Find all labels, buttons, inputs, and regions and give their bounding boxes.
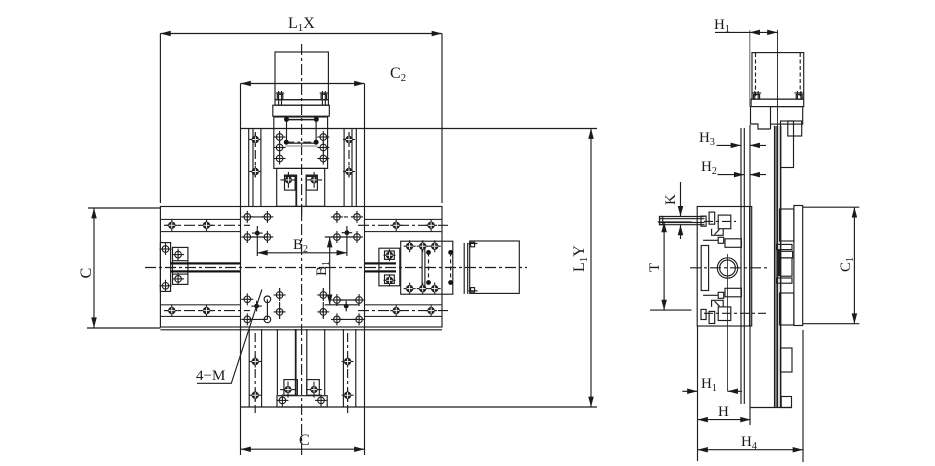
centerline horizontal (X axis) [145,267,527,269]
body bottom blocks [701,300,731,323]
lead screw bore [717,254,737,391]
central square BR screws [331,294,365,325]
dimension H1 top [715,30,778,107]
central square BL screws [241,293,270,325]
dimension L1X [160,34,442,204]
TR dot [342,226,353,256]
Y table strip [794,206,803,326]
coupling screws [404,240,441,294]
BR extra screws [317,288,329,319]
Y carriage top mount [781,121,802,168]
right bracket [379,248,400,286]
left clamp block [160,243,188,292]
coupling dot centerlines [429,252,451,282]
svg-text:T: T [647,263,663,272]
central square TR screws [325,211,363,243]
top arm screws [249,134,355,178]
dimension H1 bottom [682,390,742,392]
dimension L1Y [590,129,592,408]
bottom flange [751,397,792,408]
table surface lines [741,128,744,404]
dimension C2 [241,83,365,85]
Y nut cluster [776,244,792,283]
dimension B1 [329,237,331,305]
dimension C left [93,208,95,328]
Y base face line [749,125,751,425]
BL extra screws [274,288,286,319]
body bottom notch [703,288,741,298]
body bottom centerline [704,312,766,314]
motor centerline [777,30,779,126]
label 4-M with leader [196,368,225,384]
centerline vertical (Y axis) [301,44,303,456]
bottom housing walls [277,329,324,395]
svg-text:C: C [78,268,95,279]
Y base band edges [241,84,598,408]
dimension T [650,222,692,310]
Y carriage upper block [780,209,794,241]
X body section [697,207,752,327]
Y slider block [274,117,328,168]
Y top housing screws [280,172,322,188]
svg-text:C: C [299,432,310,449]
dimension H2 [718,174,767,176]
X base plate [160,207,442,328]
bottom end bar [276,394,327,407]
left arm rails [160,219,240,316]
X motor body [464,241,519,294]
Y motor flange tabs [276,91,328,105]
motor flange (side) [751,91,804,107]
bottom arm rails [249,329,356,407]
coupling dots [426,250,453,285]
rail screws right arm [390,219,437,316]
Y top housing dark strips [285,175,318,178]
svg-text:H: H [718,404,729,420]
lead screw bars right [365,262,397,272]
motor mount block [751,107,803,129]
Y carriage lower block [780,293,794,325]
central square TL screws [241,211,273,243]
Y slider gray line [285,145,317,147]
slot [701,246,708,291]
side centerline [690,267,770,269]
Y slider screws [274,131,330,165]
right coupling housing [401,241,453,294]
bottom arm screws [249,356,353,402]
dimension K [680,182,682,239]
lead screw neck top [296,175,306,219]
Y slider dot link line [287,118,317,120]
dimension H3 [717,144,766,146]
bottom housing blocks [280,380,322,398]
Y motor flange plates [273,100,330,117]
TL dot [252,226,263,256]
dimension H [698,326,751,461]
body top notch [703,237,741,247]
BL dot [251,301,262,312]
svg-text:4−M: 4−M [196,368,225,384]
dimension H4 [698,330,804,462]
body top blocks [701,212,731,235]
dimension B2 [257,252,347,254]
Y slider dot centerline [286,141,316,143]
Y motor body [275,52,328,100]
X motor tabs [469,242,478,292]
Y top housing block [277,168,325,206]
lead screw bars left [171,262,241,272]
top arm rails [249,129,357,207]
Y slider dots [284,117,319,145]
body top centerline [704,220,736,222]
X table left protrusion [87,208,442,330]
dimension C bottom [241,407,365,455]
top motor (side) [752,53,804,100]
plate stack lines [775,126,781,408]
dimension C1 [803,207,860,324]
top arm screw centerlines [255,132,349,178]
svg-text:K: K [663,194,679,205]
rail screw centerlines [164,225,448,310]
BR dot [325,301,359,312]
lead screw shaft end [660,217,705,225]
Y end block [780,348,792,372]
rail screws left arm [166,219,213,316]
right arm rails [365,219,443,316]
bottom arm screw centerlines [255,333,347,413]
